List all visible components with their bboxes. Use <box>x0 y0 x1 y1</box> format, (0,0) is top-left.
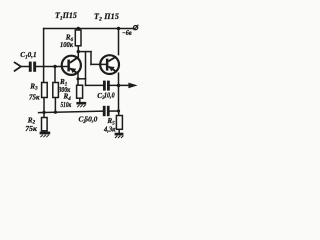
svg-text:−6в: −6в <box>122 29 132 37</box>
svg-text:T1П15: T1П15 <box>55 11 77 22</box>
svg-text:T2 П15: T2 П15 <box>94 12 119 23</box>
svg-text:75к: 75к <box>25 125 37 133</box>
svg-text:75к: 75к <box>29 94 40 102</box>
svg-text:100к: 100к <box>60 41 73 49</box>
svg-text:4,3к: 4,3к <box>103 125 116 133</box>
svg-text:50,0: 50,0 <box>84 115 97 123</box>
svg-text:R3: R3 <box>29 82 38 91</box>
svg-text:C10,1: C10,1 <box>20 51 36 60</box>
svg-text:10,0: 10,0 <box>104 92 115 100</box>
svg-text:510к: 510к <box>61 101 72 109</box>
